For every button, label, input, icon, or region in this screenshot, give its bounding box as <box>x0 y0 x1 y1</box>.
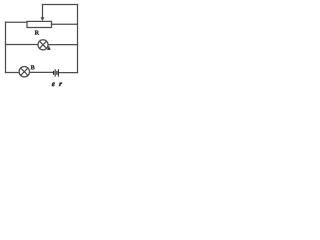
rheostat slider arrow stem <box>42 5 44 18</box>
label B <box>31 65 35 69</box>
lamp B body <box>19 67 29 77</box>
rheostat slider arrowhead <box>41 17 45 21</box>
wire bottom branch right <box>59 72 78 74</box>
battery cells <box>54 69 59 76</box>
label A <box>47 46 50 50</box>
wire right vertical <box>77 5 79 73</box>
wire middle branch left <box>6 44 39 46</box>
label epsilon <box>52 83 55 86</box>
label R <box>35 31 39 35</box>
label r <box>59 83 62 86</box>
wire left horizontal to R <box>6 21 28 23</box>
wire top horizontal <box>43 4 78 6</box>
wire left vertical <box>5 22 7 72</box>
wire middle branch right <box>48 44 77 46</box>
wire bottom branch left <box>6 72 20 74</box>
lamp A body <box>38 40 48 50</box>
wire from R right side to right vertical <box>52 23 78 25</box>
resistor R body <box>27 21 52 27</box>
wire bottom branch middle <box>30 71 54 73</box>
